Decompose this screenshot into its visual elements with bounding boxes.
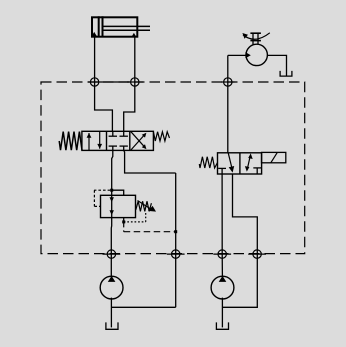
wire stub at port circle bottom 1 [103,253,121,255]
V1 left spring [59,132,82,151]
wire motor inlet horizontal [228,54,246,56]
V2 solenoid [262,152,286,162]
V1 centre box blocked ports [112,131,114,136]
valve V1 4/3 body [82,131,153,150]
wire tank return to pump suction [112,306,176,308]
port circle bottom 3 [218,250,226,258]
cylinder rod [104,25,151,27]
pump P1 [100,276,123,299]
port circle bottom 4 [253,250,261,258]
V1 right box crossed arrows [131,135,144,150]
wire pump P2 to tank [221,298,223,328]
pump P2 [211,276,234,299]
node drain junction [174,230,177,233]
relief valve RV1 body [101,195,136,217]
wire tank return down [175,173,177,307]
wire cylinder B-port to valve V1 [124,38,135,132]
motor rotation arc [243,33,270,39]
RV1 pilot line dashed [94,189,110,191]
wire cylinder A-port to valve V1 [95,38,113,132]
RV1 drain port [123,218,125,222]
V1 right spring [153,132,169,141]
wire pump P2 up to valve V2 [221,174,223,276]
V2 right box blocked T [253,167,261,169]
wire stub at port circle top 2 [127,81,143,83]
wire stub at port circle top 3 [221,81,235,83]
wire V2 T-port step to tank line [223,174,258,307]
port circle top 2 [131,78,139,86]
wire pump P1 to tank [110,298,112,328]
cylinder port arrow right [131,33,136,37]
V2 spring left [199,157,217,168]
wire stub at port circle top 1 [88,81,130,83]
motor shaft [252,33,254,44]
wire V1 T-port to tank line [124,150,176,173]
enclosure dashed boundary [41,82,305,254]
RV1 spring [136,201,152,211]
wire stub at port circle bottom 4 [248,253,266,255]
cylinder A1 barrel [92,17,137,36]
motor M1 [246,44,267,65]
port circle bottom 2 [172,250,180,258]
V2 left box passage A to T [228,153,232,168]
cylinder port arrow left [91,32,97,37]
RV1 adjust arrow [138,201,151,209]
RV1 flow arrows [110,197,114,202]
wire motor outlet to tank [267,55,286,75]
wire stub at port circle bottom 3 [213,253,231,255]
wire branch into relief top [112,190,124,195]
V1 left box parallel arrows [88,133,90,150]
wire motor inlet down to V2 [227,55,229,152]
RV1 drain dashed to tank line [123,222,125,232]
cylinder piston [98,16,100,36]
tank T1 [106,322,118,329]
port circle top 3 [224,78,232,86]
wire V1 P-port down [112,150,113,190]
valve V2 3/2 body [218,153,262,174]
V2 left box blocked P [218,167,226,169]
wire stub at port circle bottom 2 [167,253,185,255]
V2 right box passage arrow [247,156,250,170]
tank T3 motor drain [280,71,292,76]
tank T2 [216,322,228,329]
RV1 spring pilot dotted [124,221,146,223]
node P junction [110,189,113,192]
port circle bottom 1 [107,250,115,258]
wire P through relief to pump [110,190,112,276]
port circle top 1 [90,78,98,86]
